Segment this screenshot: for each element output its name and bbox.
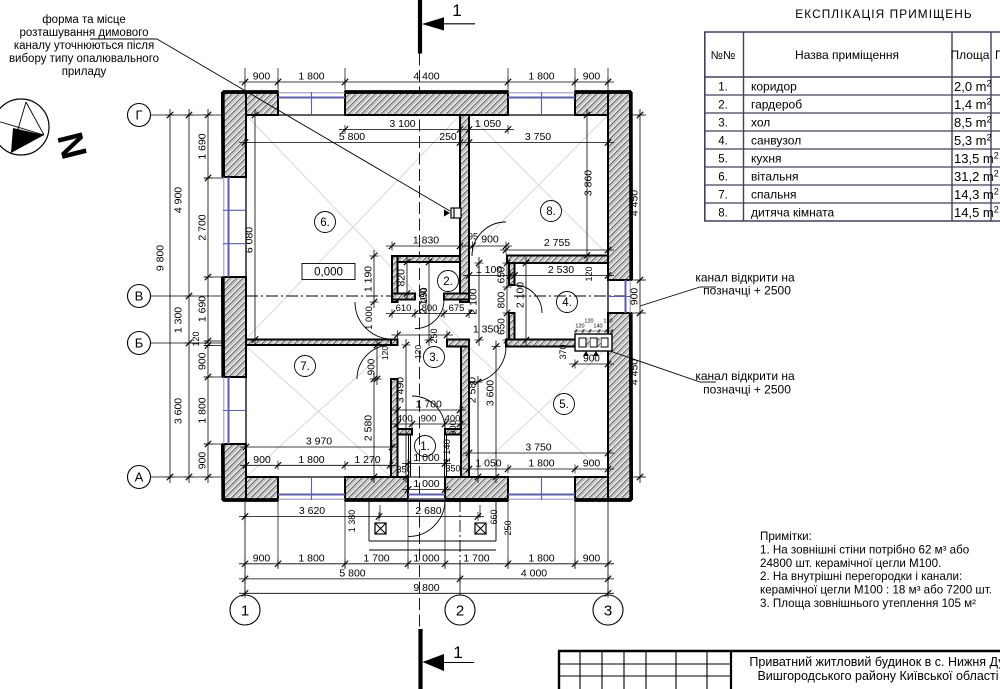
dimension room7 900/1800/1270 <box>240 454 396 470</box>
svg-text:1: 1 <box>452 1 461 20</box>
svg-text:3.: 3. <box>718 118 728 130</box>
level mark 0,000 <box>302 264 355 280</box>
wall right upper segment <box>608 92 631 280</box>
dimension hall 1350 <box>392 324 500 340</box>
partition room2 left <box>392 256 398 302</box>
dimension left inner col <box>197 109 213 483</box>
section line 1-1 <box>419 54 421 630</box>
svg-text:2 700: 2 700 <box>197 214 209 240</box>
dimension bottom 3620/2680 <box>239 505 484 521</box>
svg-text:650: 650 <box>497 318 508 335</box>
dimension room8 2755 <box>500 237 614 255</box>
explication table <box>704 32 1000 221</box>
svg-text:приладу: приладу <box>62 66 107 78</box>
svg-text:120: 120 <box>584 266 594 281</box>
svg-text:Площа: Площа <box>951 48 990 62</box>
wall rooms 7/3 lower <box>391 379 398 477</box>
svg-text:1: 1 <box>453 643 462 662</box>
partition room4 left upper <box>509 263 515 285</box>
room label 4 <box>557 292 578 313</box>
svg-text:1 700: 1 700 <box>363 552 389 564</box>
svg-text:3 750: 3 750 <box>525 131 551 143</box>
svg-text:900: 900 <box>481 234 499 246</box>
title block <box>558 651 1000 689</box>
svg-text:370: 370 <box>558 344 568 359</box>
svg-text:2 100: 2 100 <box>515 282 527 308</box>
svg-text:24800 шт. керамічної цегли М10: 24800 шт. керамічної цегли М100. <box>760 557 941 570</box>
dimension left 9800 <box>155 109 175 483</box>
door arc room8 <box>472 222 506 256</box>
porch post right <box>475 523 486 534</box>
svg-text:позначці + 2500: позначці + 2500 <box>703 383 791 397</box>
dimension room7 3970 <box>240 436 398 452</box>
door arc room6-hall <box>355 302 392 339</box>
svg-text:1 800: 1 800 <box>528 458 554 470</box>
dimension room1 1700 <box>392 399 467 415</box>
wall 7/3 top cap <box>391 340 398 346</box>
door arc hall-room7 <box>357 345 391 379</box>
room label 8 <box>541 201 562 222</box>
svg-text:1 000: 1 000 <box>413 452 439 464</box>
svg-text:3.: 3. <box>429 352 439 364</box>
svg-text:Б: Б <box>135 336 144 351</box>
svg-text:3 600: 3 600 <box>173 398 185 424</box>
svg-text:5.: 5. <box>718 154 728 166</box>
svg-text:900: 900 <box>583 71 601 83</box>
svg-text:ЕКСПЛІКАЦІЯ ПРИМІЩЕНЬ: ЕКСПЛІКАЦІЯ ПРИМІЩЕНЬ <box>795 7 972 21</box>
svg-text:350: 350 <box>445 464 460 474</box>
svg-text:2. На внутрішні перегородки і: 2. На внутрішні перегородки і канали: <box>760 570 962 583</box>
svg-text:8,5 m2: 8,5 m2 <box>954 115 992 131</box>
svg-text:1 690: 1 690 <box>197 133 209 159</box>
svg-text:120: 120 <box>191 331 201 346</box>
svg-text:5 800: 5 800 <box>339 131 365 143</box>
axis lines left <box>151 114 224 116</box>
dimension room1 400/900/400 <box>392 414 467 429</box>
window left upper W5 <box>223 177 246 277</box>
svg-text:140: 140 <box>593 324 602 330</box>
axis circle 2 <box>445 595 475 625</box>
window bottom-right W4 <box>508 477 575 500</box>
svg-text:1 350: 1 350 <box>473 324 499 336</box>
svg-text:4 000: 4 000 <box>521 567 547 579</box>
svg-text:вибору типу опалювального: вибору типу опалювального <box>9 53 159 65</box>
wall right lower segment <box>608 313 631 500</box>
north compass <box>0 99 49 155</box>
svg-text:4.: 4. <box>718 136 728 148</box>
svg-text:610: 610 <box>396 303 412 314</box>
svg-text:канал відкрити на: канал відкрити на <box>695 369 795 383</box>
svg-text:3 490: 3 490 <box>395 377 407 403</box>
wall B-axis right (rooms 4/5) <box>506 340 608 347</box>
svg-text:2 580: 2 580 <box>363 415 375 441</box>
svg-text:900: 900 <box>253 454 271 466</box>
leader 2 <box>610 351 700 382</box>
svg-text:900: 900 <box>448 420 459 436</box>
dimension top inner 5800/250/3750 <box>239 131 614 147</box>
room label 7 <box>295 356 316 377</box>
dimension door7 900 <box>367 339 382 385</box>
wall top-middle segment <box>345 92 508 115</box>
extension lines right <box>631 114 646 116</box>
interior wall A (rooms 6/8/2) <box>460 115 469 302</box>
wall top-right segment <box>575 92 631 115</box>
room label 2 <box>438 271 459 292</box>
svg-text:14,3 m2: 14,3 m2 <box>954 187 999 203</box>
dimension room2 820 <box>396 256 412 300</box>
channel note 2 <box>695 369 795 397</box>
svg-text:3 860: 3 860 <box>583 170 595 196</box>
svg-text:2.: 2. <box>718 100 728 112</box>
window right W7 (bathroom) <box>608 280 631 313</box>
axis circle Б <box>128 332 151 355</box>
svg-text:350: 350 <box>396 465 411 475</box>
svg-text:675: 675 <box>449 303 465 314</box>
svg-text:250: 250 <box>439 131 457 143</box>
svg-text:гардероб: гардероб <box>751 98 802 112</box>
extension lines left <box>204 177 223 179</box>
dimension room6 6080 <box>244 109 260 346</box>
svg-text:2,0 m2: 2,0 m2 <box>954 79 992 95</box>
svg-text:2 530: 2 530 <box>548 264 574 276</box>
wall stub at hall <box>447 340 469 347</box>
window bottom-left W3 <box>278 477 345 500</box>
svg-text:120: 120 <box>413 345 423 359</box>
svg-text:1 800: 1 800 <box>298 552 324 564</box>
svg-text:120: 120 <box>575 324 584 330</box>
svg-text:4 450: 4 450 <box>629 190 641 216</box>
svg-text:1 000: 1 000 <box>364 306 375 330</box>
dimension 2580 a <box>363 373 379 483</box>
svg-text:Вишгородського району Київсько: Вишгородського району Київської області <box>757 669 998 683</box>
svg-text:керамічної цегли М100 : 18 м³: керамічної цегли М100 : 18 м³ або 7200 ш… <box>760 584 992 597</box>
svg-text:820: 820 <box>396 269 408 287</box>
svg-text:1 800: 1 800 <box>197 397 209 423</box>
axis 2 dash line <box>459 480 461 563</box>
svg-text:9 800: 9 800 <box>155 245 167 271</box>
svg-text:1 300: 1 300 <box>173 307 185 333</box>
svg-text:5.: 5. <box>559 399 569 411</box>
window top-left W1 <box>278 92 345 115</box>
svg-text:1.: 1. <box>718 82 728 94</box>
partition room1 top right <box>445 429 461 435</box>
svg-text:8.: 8. <box>546 206 556 218</box>
svg-text:1 190: 1 190 <box>363 266 375 292</box>
entrance door threshold <box>408 476 445 478</box>
dimension room8 3860 <box>583 109 595 262</box>
svg-text:3 620: 3 620 <box>299 505 325 517</box>
svg-text:400: 400 <box>397 414 413 425</box>
room label 3 <box>424 347 445 368</box>
partition B-axis left (rooms 6/7) <box>246 340 391 346</box>
svg-text:2 100: 2 100 <box>468 288 480 314</box>
vent micro dims <box>574 319 614 334</box>
dimension 2100 a <box>418 256 434 346</box>
svg-text:900: 900 <box>197 452 209 470</box>
axis circle Г <box>128 104 151 127</box>
dimension kitchen 1050/1800/900 <box>463 458 614 474</box>
wall bottom segment left of door <box>345 477 408 500</box>
svg-text:1 050: 1 050 <box>475 458 501 470</box>
svg-text:5,3 m2: 5,3 m2 <box>954 133 992 149</box>
dimension 2100 b <box>468 257 484 346</box>
extension lines bottom <box>277 500 279 569</box>
door arc room1-hall <box>412 396 445 429</box>
svg-text:3 750: 3 750 <box>525 442 551 454</box>
axis circle 3 <box>593 595 623 625</box>
door arc room2 <box>415 300 444 329</box>
window left lower W6 <box>223 377 246 444</box>
channel note 1 <box>695 271 795 298</box>
svg-text:2 680: 2 680 <box>415 505 441 517</box>
svg-text:1 140: 1 140 <box>442 439 453 463</box>
svg-text:А: А <box>135 470 144 485</box>
dimension top row 900-1800-4400 <box>239 71 614 87</box>
svg-text:6.: 6. <box>320 217 330 229</box>
svg-text:250: 250 <box>419 287 429 302</box>
chimney symbol <box>444 208 461 218</box>
svg-text:7.: 7. <box>300 361 310 373</box>
wall bottom-right segment <box>575 477 631 500</box>
svg-text:4 400: 4 400 <box>413 71 439 83</box>
axis lines bottom <box>244 500 246 595</box>
ventilation channels block <box>575 334 612 356</box>
svg-text:Назва приміщення: Назва приміщення <box>795 48 899 62</box>
svg-text:Примітки:: Примітки: <box>760 530 812 543</box>
room label 5 <box>554 394 575 415</box>
door arc entrance <box>409 500 446 537</box>
svg-text:3 100: 3 100 <box>389 118 415 130</box>
dimension bottom row3 <box>239 582 614 598</box>
dimension right col <box>629 109 645 483</box>
dimension room4 1100/2530 <box>463 264 614 280</box>
svg-text:1 690: 1 690 <box>197 296 209 322</box>
room diagonals (faint) <box>247 116 607 476</box>
axis B dash line <box>246 295 391 297</box>
svg-text:14,5 m2: 14,5 m2 <box>954 205 999 221</box>
svg-text:9 800: 9 800 <box>413 582 439 594</box>
svg-text:Приватний житловий будинок в с: Приватний житловий будинок в с. Нижня Ду… <box>749 655 1000 669</box>
dimension 2580 b <box>467 376 483 483</box>
svg-text:1 800: 1 800 <box>298 454 324 466</box>
wall left upper segment <box>223 92 246 177</box>
svg-text:4 450: 4 450 <box>629 359 641 385</box>
dimension entry door 1000 <box>402 452 451 468</box>
partition room2 bottom right <box>444 294 469 300</box>
svg-text:дитяча кімната: дитяча кімната <box>751 206 835 220</box>
wall bottom-left segment <box>223 477 278 500</box>
svg-text:0,000: 0,000 <box>314 267 343 279</box>
svg-text:Г: Г <box>135 108 142 123</box>
svg-text:900: 900 <box>583 458 601 470</box>
svg-text:1 800: 1 800 <box>528 552 554 564</box>
svg-text:1 000: 1 000 <box>413 552 439 564</box>
entrance jamb lines <box>408 435 410 478</box>
svg-text:3. Площа зовнішнього утеплення: 3. Площа зовнішнього утеплення 105 м² <box>760 597 976 610</box>
dimension bottom row1 <box>239 552 614 568</box>
svg-text:1. На зовнішні стіни потрібно: 1. На зовнішні стіни потрібно 62 м³ або <box>760 543 969 556</box>
dimension top inner 3100/1050 <box>339 118 514 134</box>
dimension kitchen 3750 <box>463 442 614 458</box>
svg-text:1 700: 1 700 <box>463 552 489 564</box>
svg-text:120: 120 <box>603 319 612 325</box>
dimension 2100 c <box>515 257 531 346</box>
svg-text:1 800: 1 800 <box>528 71 554 83</box>
dimension bottom row2 <box>239 567 614 583</box>
svg-text:спальня: спальня <box>751 188 797 202</box>
partition room4/room8 top <box>507 256 608 264</box>
notes text <box>760 530 992 610</box>
door arc hall-kitchen <box>470 347 506 383</box>
svg-text:форма та місце: форма та місце <box>42 14 126 26</box>
svg-text:900: 900 <box>421 414 437 425</box>
svg-text:2 580: 2 580 <box>467 377 479 403</box>
partition room1 top left <box>398 429 413 435</box>
svg-text:900: 900 <box>583 354 600 365</box>
svg-text:900: 900 <box>583 552 601 564</box>
chimney annotation text <box>9 14 159 78</box>
section marker bottom <box>421 629 475 689</box>
axis circle А <box>128 466 151 489</box>
svg-text:2: 2 <box>456 602 464 619</box>
porch outline <box>369 500 496 550</box>
svg-text:коридор: коридор <box>751 80 797 94</box>
dimension kitchen 3600 <box>485 341 501 484</box>
dimension room8 1830/95/900 <box>386 235 512 251</box>
svg-text:вітальня: вітальня <box>751 170 798 184</box>
svg-text:250: 250 <box>503 520 513 535</box>
svg-text:1,4 m2: 1,4 m2 <box>954 97 992 113</box>
svg-text:1 050: 1 050 <box>475 118 501 130</box>
svg-text:4 900: 4 900 <box>173 187 185 213</box>
svg-text:4.: 4. <box>562 297 572 309</box>
svg-text:3 970: 3 970 <box>306 436 332 448</box>
dimension room2 610/800/675 <box>386 303 475 318</box>
svg-text:95: 95 <box>468 232 478 242</box>
svg-text:900: 900 <box>367 358 378 375</box>
dimension vent 900 <box>569 354 614 369</box>
svg-text:31,2 m2: 31,2 m2 <box>954 169 999 185</box>
svg-text:позначці + 2500: позначці + 2500 <box>703 284 791 298</box>
svg-text:8.: 8. <box>718 208 728 220</box>
svg-text:650: 650 <box>497 266 508 283</box>
svg-text:1: 1 <box>241 602 249 619</box>
svg-text:660: 660 <box>489 509 499 524</box>
wall rooms 1-3/5 <box>461 347 469 478</box>
section marker top <box>420 0 475 54</box>
svg-text:120: 120 <box>380 346 390 360</box>
extension lines top <box>244 68 246 92</box>
svg-text:6.: 6. <box>718 172 728 184</box>
svg-text:6 080: 6 080 <box>244 227 256 253</box>
leader 1 <box>640 287 700 306</box>
svg-text:№№: №№ <box>711 50 736 62</box>
svg-text:1 000: 1 000 <box>413 478 439 490</box>
svg-text:120: 120 <box>584 319 593 325</box>
svg-text:900: 900 <box>253 552 271 564</box>
svg-text:5 800: 5 800 <box>339 567 365 579</box>
svg-text:2.: 2. <box>443 276 453 288</box>
dimension left 4900/1300/3600 <box>173 109 194 483</box>
svg-text:каналу уточнюються після: каналу уточнюються після <box>14 40 154 52</box>
dimension 1190 <box>363 250 379 308</box>
svg-text:3 600: 3 600 <box>485 380 497 406</box>
svg-text:1 380: 1 380 <box>347 510 357 533</box>
room label 1 <box>415 436 436 457</box>
window top-right W2 <box>508 92 575 115</box>
leader line to chimney note <box>90 38 157 40</box>
dimension hall 3490 <box>395 339 411 483</box>
svg-text:900: 900 <box>197 352 209 370</box>
svg-text:1 270: 1 270 <box>354 454 380 466</box>
svg-text:1 830: 1 830 <box>413 235 439 247</box>
porch post left <box>375 523 386 534</box>
svg-text:800: 800 <box>497 291 508 308</box>
svg-text:3: 3 <box>604 602 612 619</box>
svg-text:кухня: кухня <box>751 152 782 166</box>
partition room2 bottom left <box>392 294 415 300</box>
outer wall thick edges <box>223 92 631 500</box>
svg-text:В: В <box>135 289 144 304</box>
svg-text:хол: хол <box>751 116 770 130</box>
svg-text:санвузол: санвузол <box>751 134 801 148</box>
svg-text:2 755: 2 755 <box>544 237 570 249</box>
svg-text:розташування димового: розташування димового <box>19 27 148 39</box>
dimension 650/800/650 <box>497 257 512 346</box>
svg-text:250: 250 <box>429 328 439 343</box>
svg-text:13,5 m2: 13,5 m2 <box>954 151 999 167</box>
dimension entry door 1000 inner <box>402 478 451 494</box>
door arc room4 <box>514 285 542 313</box>
partition room4 left lower <box>509 313 515 340</box>
partition room2 top <box>392 256 460 262</box>
wall top-left segment <box>223 92 278 115</box>
svg-text:канал відкрити на: канал відкрити на <box>695 271 795 285</box>
wall left lower segment <box>223 444 246 500</box>
wall bottom segment right of door <box>445 477 508 500</box>
svg-text:1 700: 1 700 <box>416 399 442 411</box>
room label 6 <box>315 212 336 233</box>
svg-text:900: 900 <box>629 288 641 306</box>
wall left middle segment <box>223 277 246 377</box>
axis circle В <box>128 285 151 308</box>
svg-text:Пр: Пр <box>995 48 1000 62</box>
axis circle 1 <box>230 595 260 625</box>
svg-text:900: 900 <box>253 71 271 83</box>
svg-text:1 800: 1 800 <box>298 71 324 83</box>
svg-text:7.: 7. <box>718 190 728 202</box>
